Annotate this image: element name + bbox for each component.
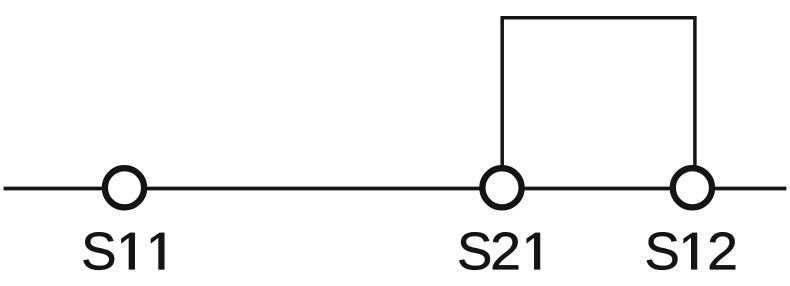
wire: main horizontal axis line	[4, 187, 787, 191]
node S11	[105, 168, 144, 207]
wire: loop left vertical segment rising from node S21	[500, 18, 504, 175]
label S11	[84, 232, 165, 270]
label S12	[647, 232, 735, 270]
wire: loop right vertical segment dropping to node S12	[693, 18, 697, 175]
wire: loop top horizontal segment	[500, 16, 696, 20]
node S12	[673, 168, 712, 207]
node S21	[482, 168, 521, 207]
label S21	[459, 232, 540, 270]
